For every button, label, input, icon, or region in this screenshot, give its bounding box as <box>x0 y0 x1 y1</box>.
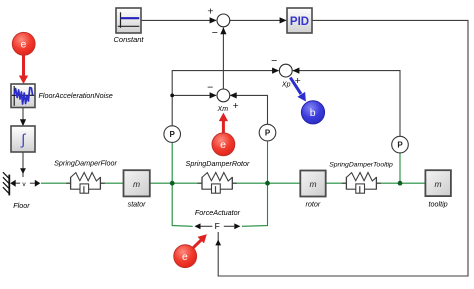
svg-text:e: e <box>20 39 26 51</box>
svg-text:e: e <box>220 139 226 151</box>
svg-text:m: m <box>133 179 140 189</box>
svg-text:Constant: Constant <box>113 35 144 44</box>
svg-text:e: e <box>182 251 188 263</box>
svg-text:PID: PID <box>290 16 309 28</box>
svg-text:FloorAccelerationNoise: FloorAccelerationNoise <box>39 91 113 100</box>
svg-text:SpringDamperTooltip: SpringDamperTooltip <box>329 162 393 169</box>
svg-text:P: P <box>265 129 271 138</box>
svg-text:ForceActuator: ForceActuator <box>195 208 241 217</box>
svg-text:F: F <box>215 221 220 231</box>
svg-text:−: − <box>207 81 213 93</box>
svg-text:tooltip: tooltip <box>429 200 448 209</box>
svg-text:+: + <box>207 6 213 18</box>
svg-text:P: P <box>170 130 176 139</box>
svg-text:+: + <box>233 100 239 112</box>
svg-text:SpringDamperFloor: SpringDamperFloor <box>54 158 117 167</box>
svg-text:+: + <box>295 75 301 87</box>
svg-text:−: − <box>212 27 218 39</box>
svg-text:Xm: Xm <box>217 106 229 113</box>
svg-text:P: P <box>397 141 403 150</box>
svg-text:m: m <box>309 179 316 189</box>
svg-text:SpringDamperRotor: SpringDamperRotor <box>186 159 251 168</box>
svg-text:Xp: Xp <box>281 82 291 89</box>
svg-text:rotor: rotor <box>306 200 321 209</box>
svg-text:Floor: Floor <box>13 201 30 210</box>
svg-text:b: b <box>310 107 316 119</box>
svg-text:m: m <box>435 179 442 189</box>
svg-text:stator: stator <box>128 200 147 209</box>
svg-text:−: − <box>271 55 277 67</box>
